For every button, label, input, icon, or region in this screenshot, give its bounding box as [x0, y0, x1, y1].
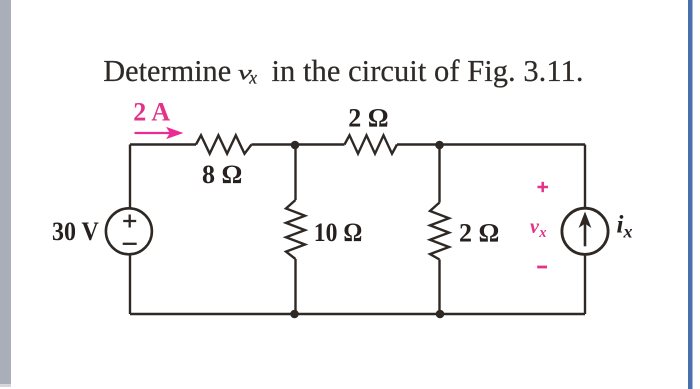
svg-text:Determinexin the circuit of Fi: Determinexin the circuit of Fig. 3.11.: [103, 54, 583, 88]
svg-text:2 Ω: 2 Ω: [459, 219, 499, 248]
svg-text:v: v: [238, 61, 252, 85]
svg-text:10 Ω: 10 Ω: [314, 218, 363, 247]
svg-text:2 A: 2 A: [133, 98, 170, 127]
svg-text:30 V: 30 V: [52, 217, 99, 246]
svg-text:2 Ω: 2 Ω: [348, 103, 388, 132]
svg-text:8 Ω: 8 Ω: [202, 160, 242, 189]
